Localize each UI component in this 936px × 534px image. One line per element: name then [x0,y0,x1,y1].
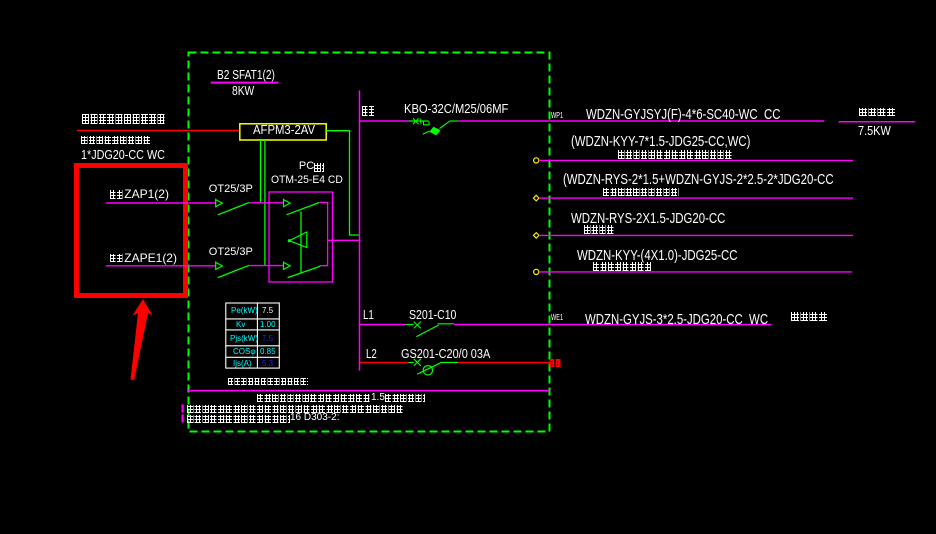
label: feed 1 from ZAP1 [110,188,169,200]
transfer switch blade 2 [288,266,321,277]
label: switch QS2 OT25/3P [209,247,253,258]
breaker QF2 blade [416,325,438,337]
label: load power 7.5KW [858,124,891,137]
wire: spare circuit L2 [458,362,550,364]
monitor module U1 AFPM3-2AV box [240,124,326,140]
terminal node row3 [533,195,539,201]
wire: fire damper circuit [539,234,853,236]
label: feed 2 from ZAPE1 [110,252,177,264]
note tick 2 [182,415,184,423]
label: L1 [363,308,374,321]
label: PC grade [299,161,324,172]
wire: transfer switch output link [328,239,360,241]
label: cable row3 [563,172,834,187]
label: machine room lighting [791,312,828,321]
distribution box dashed boundary [189,53,550,432]
load label divider line [839,121,916,123]
label: row3 destination [603,188,679,197]
table value 1.00 [260,321,276,329]
table value 0.85 [260,348,276,356]
wire: local button box circuit [539,271,852,273]
note line 4 [187,413,339,423]
label: cable row5 [577,248,737,263]
wire: linkage control module circuit [539,197,853,199]
wire: bus to breaker QF1 [360,120,409,122]
breaker QF3 outlet lead [440,362,458,364]
wire: bus to breaker QF3 L2 [360,362,409,364]
transfer switch pivot dot [288,239,291,242]
label: panel power 8KW [232,84,254,97]
wire WP1 to fan [458,120,824,122]
label: OTM-25-E4 CD [271,175,343,186]
breaker QF1 blade [440,121,450,128]
breaker QF1 KBO-32C lead [409,120,429,122]
label: breaker S201-C10 [409,308,456,321]
label: monitor signal note line1 [82,114,166,124]
breaker QF1 loop [424,121,430,125]
note line 1 [228,378,308,385]
label: monitor signal note line2 [81,136,151,145]
label: cable row2 [571,134,750,149]
note tick 1 [182,405,184,413]
label: WP1 [551,112,563,120]
bus bar [359,90,361,370]
wire WE1 lighting circuit [454,324,772,326]
label: row4 destination fire damper [584,225,615,234]
terminal node row4 [533,233,539,239]
label: three-phase [362,106,376,116]
breaker QF3 GS201 lead [408,362,413,364]
label: panel name B2 SFAT1(2) [217,68,275,81]
table label COSo [233,348,256,356]
breaker QF1 contact cross [413,118,419,124]
switch QS1 OT25/3P blade [218,203,249,215]
label: cable row4 [571,211,725,226]
breaker QF1 isolation tick [420,119,422,124]
wire: QS1 to transfer switch input 1 [249,202,283,204]
calculation table grid [226,303,279,368]
label: 1*JDG20-CC WC [81,148,165,161]
table label Kv [236,321,245,329]
transfer switch common bar [300,212,302,274]
label: breaker GS201-C20/0.03A [401,347,490,360]
note line 3 [187,405,404,413]
transfer switch pin 1 [284,199,291,208]
switch QS2 OT25/3P pin [216,261,223,270]
table label Ijs(A) [233,360,252,368]
breaker QF3 RCD ring [423,366,432,375]
breaker QF2 S201-C10 lead [405,324,413,326]
breaker QF1 blade stub [423,131,430,134]
label: cable WE1 [585,312,768,327]
label: switch QS1 OT25/3P [209,184,253,195]
transfer switch pin 2 [284,261,291,270]
breaker QF1 body [429,127,440,136]
table value 7.5 [262,307,273,315]
bottom divider line [187,390,550,392]
label: row2 destination [618,150,733,159]
wire: bus to breaker QF2 L1 [360,324,406,326]
breaker QF2 contact cross [414,322,421,329]
transfer switch U2 inner bracket [320,202,328,265]
wire: multi-line control module circuit [539,159,853,161]
underline of panel name B2 SFAT1(2) [211,82,279,84]
label: cable WP1 [586,107,780,122]
table label Pe(kW) [231,307,258,315]
label: breaker KBO-32C/M25/06MF [404,102,508,115]
label: load name mixed flow fan [859,108,896,117]
label: row5 destination button box [593,262,652,271]
breaker QF1 outlet lead [450,120,459,122]
wire: AFPM output to bus [326,131,359,235]
wire: AFPM sense tap to line N1 [260,140,262,203]
wire: QS2 to transfer switch input 2 [249,265,283,267]
wire: monitor signal line to AFPM [77,130,240,132]
note line 2 [257,393,425,403]
spare circuit red end mark [550,359,561,367]
red highlight box annotation [77,166,186,296]
switch QS2 OT25/3P blade [218,265,249,277]
wire: AFPM sense tap to line N2 [264,140,266,266]
transfer switch U2 OTM-25-E4CD outer box [269,192,333,282]
red arrow annotation [131,299,153,380]
switch QS1 OT25/3P pin [216,199,223,208]
label: L2 [366,347,377,360]
wire: incoming feed 2 from ZAPE1 [106,265,216,267]
breaker QF2 outlet lead [438,323,454,325]
label: AFPM3-2AV [253,123,315,136]
breaker QF3 contact cross [414,359,421,366]
label: WE1 [551,314,563,322]
table value 5.3 [262,360,273,368]
table value 7.5 [262,335,273,343]
transfer switch selector triangle [289,232,307,248]
transfer switch blade 1 [287,203,320,215]
terminal node row5 [534,269,539,274]
table label Pjs(kW) [230,335,258,343]
wire: incoming feed 1 from ZAP1 [106,202,216,204]
terminal node row2 [534,158,539,163]
breaker QF3 blade [417,363,440,374]
